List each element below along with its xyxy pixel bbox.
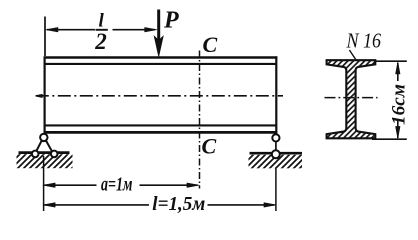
load P arrow [154, 10, 163, 57]
dimension 16cm line with arrows [396, 62, 401, 139]
ground hatching right [249, 155, 303, 169]
dimension a line with arrows [43, 183, 200, 188]
svg-text:C: C [203, 32, 218, 57]
beam axis centerline [36, 95, 283, 97]
beam outline (side view) [44, 56, 278, 133]
extension line below support B [275, 168, 277, 211]
svg-text:l=1,5м: l=1,5м [152, 193, 205, 215]
svg-text:a=1м: a=1м [101, 174, 133, 196]
centerline left end tick [36, 95, 42, 98]
cross-section centerline [325, 97, 378, 99]
extension line bottom of section [372, 138, 407, 140]
svg-text:N 16: N 16 [346, 29, 382, 53]
ground line right [250, 152, 303, 155]
svg-text:16см: 16см [389, 84, 410, 125]
value label l/2 fraction [94, 11, 108, 55]
dimension l/2 line with arrows [46, 27, 157, 32]
I-beam cross-section outline [327, 60, 376, 138]
section line C-C [199, 51, 201, 189]
ground line left [19, 151, 70, 154]
extension line below support A [43, 156, 45, 211]
ground hatching left [17, 154, 73, 168]
svg-text:P: P [163, 8, 179, 34]
dimension l line with arrows [43, 203, 276, 208]
leader line for N 16 [349, 50, 356, 61]
dimension l/2 extension line [44, 17, 46, 57]
extension line top of section [374, 60, 407, 62]
svg-text:2: 2 [94, 29, 107, 54]
support B roller (right) [272, 134, 280, 158]
support A pin (left) [32, 134, 58, 158]
svg-text:C: C [202, 134, 217, 159]
